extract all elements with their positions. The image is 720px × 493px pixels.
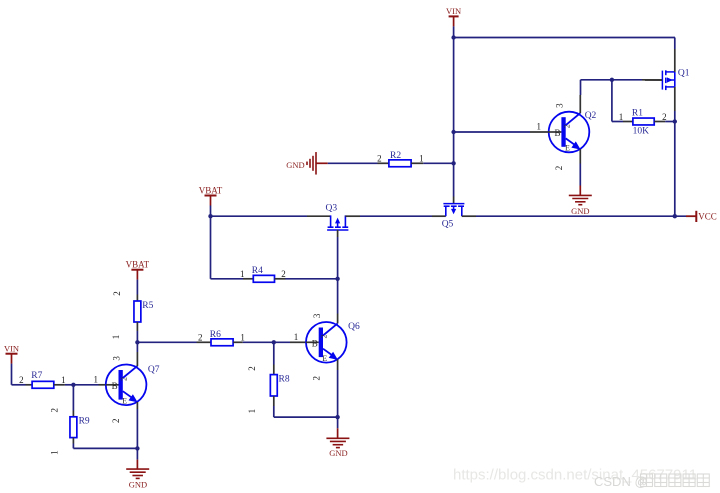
svg-text:R9: R9 [79, 417, 90, 427]
svg-text:2: 2 [281, 269, 286, 279]
svg-text:2: 2 [19, 375, 24, 385]
svg-text:2: 2 [112, 291, 122, 296]
svg-text:Q2: Q2 [585, 111, 597, 121]
svg-text:Q7: Q7 [148, 365, 160, 375]
svg-text:2: 2 [119, 377, 128, 381]
svg-text:3: 3 [112, 356, 122, 361]
svg-text:VIN: VIN [446, 6, 461, 16]
svg-text:GND: GND [129, 480, 147, 490]
svg-text:Q1: Q1 [678, 69, 690, 79]
svg-text:Q3: Q3 [326, 204, 338, 214]
svg-text:1: 1 [294, 332, 299, 342]
svg-text:1: 1 [61, 375, 66, 385]
svg-text:2: 2 [247, 366, 257, 371]
svg-text:1: 1 [419, 154, 424, 164]
svg-text:R5: R5 [142, 301, 153, 311]
svg-text:GND: GND [329, 448, 347, 458]
svg-text:VBAT: VBAT [199, 185, 223, 195]
svg-text:B: B [112, 381, 118, 391]
svg-text:1: 1 [94, 374, 99, 384]
svg-text:1: 1 [619, 112, 624, 122]
svg-text:CSDN @: CSDN @ [594, 474, 648, 489]
svg-text:Q6: Q6 [348, 322, 360, 332]
svg-text:2: 2 [554, 166, 564, 171]
svg-text:GND: GND [286, 160, 304, 170]
svg-text:2: 2 [50, 408, 60, 413]
svg-text:R1: R1 [632, 108, 643, 118]
svg-text:1: 1 [111, 335, 121, 340]
svg-text:1: 1 [240, 269, 245, 279]
svg-text:VBAT: VBAT [126, 260, 150, 270]
svg-text:R6: R6 [210, 330, 221, 340]
svg-text:VCC: VCC [698, 212, 717, 222]
svg-text:2: 2 [198, 333, 203, 343]
svg-text:3: 3 [555, 103, 565, 108]
svg-text:R7: R7 [31, 371, 42, 381]
svg-text:R4: R4 [252, 266, 263, 276]
svg-text:2: 2 [562, 124, 571, 128]
svg-text:1: 1 [240, 333, 245, 343]
svg-text:1: 1 [247, 409, 257, 414]
svg-text:VIN: VIN [4, 344, 19, 354]
svg-text:1: 1 [536, 122, 541, 132]
svg-text:B: B [312, 338, 318, 348]
svg-text:2: 2 [311, 376, 321, 381]
svg-text:2: 2 [111, 419, 121, 424]
svg-text:E: E [565, 144, 570, 153]
svg-text:E: E [322, 354, 327, 363]
svg-text:2: 2 [320, 335, 329, 339]
svg-text:GND: GND [571, 206, 589, 216]
svg-text:Q5: Q5 [442, 219, 454, 229]
svg-text:10K: 10K [633, 126, 650, 136]
svg-text:R2: R2 [390, 151, 401, 161]
svg-text:3: 3 [312, 313, 322, 318]
svg-text:1: 1 [49, 450, 59, 455]
svg-text:R8: R8 [279, 374, 290, 384]
svg-text:E: E [122, 396, 127, 405]
svg-text:2: 2 [377, 154, 382, 164]
svg-text:2: 2 [662, 112, 667, 122]
svg-text:B: B [554, 128, 560, 138]
